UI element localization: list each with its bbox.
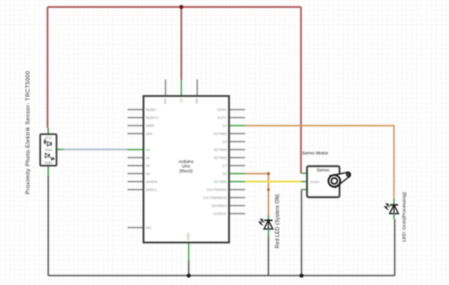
wire: sensor Vout to Arduino A0 (pale blue) xyxy=(64,148,128,150)
svg-text:Servo Motor: Servo Motor xyxy=(302,150,329,156)
svg-text:A3: A3 xyxy=(146,172,150,176)
svg-text:A2: A2 xyxy=(146,164,150,168)
sensor U1 pin GND stub xyxy=(47,166,49,177)
wire: Arduino GND down to bus xyxy=(188,261,190,276)
svg-text:N/C: N/C xyxy=(146,226,152,230)
sensor U1: Proximity Photo-Elektrik Sensor TRCT5000 body xyxy=(40,134,56,166)
Arduino U2 right pin D9 PWM (connected) xyxy=(229,181,245,183)
svg-text:RESET: RESET xyxy=(146,108,157,112)
LED2 emission arrows xyxy=(385,204,390,210)
sensor U1 phototransistor glyph xyxy=(45,153,54,160)
Arduino U2 body xyxy=(144,96,230,243)
wire: 5V net red, sensor VCC up xyxy=(47,7,49,128)
junction: GND node at servo xyxy=(300,274,304,278)
Arduino U2 right pins xyxy=(229,110,245,214)
servo M1 horn xyxy=(328,172,350,188)
svg-text:D10 PWM/SS: D10 PWM/SS xyxy=(207,188,227,192)
servo M1 body xyxy=(307,166,340,197)
svg-text:Red LED (System ON): Red LED (System ON) xyxy=(275,194,281,249)
LED1 red LED symbol xyxy=(264,220,273,229)
wire: servo ground down to bus xyxy=(301,190,303,276)
svg-text:VIN: VIN xyxy=(195,98,199,104)
wire: 5V net red, top horizontal xyxy=(48,6,302,8)
Arduino U2 left pin labels xyxy=(146,108,159,230)
svg-text:Proximity Photo-Elektrik Senso: Proximity Photo-Elektrik Sensor- TRCT500… xyxy=(26,71,32,195)
svg-text:D7: D7 xyxy=(222,164,226,168)
bendpoint on D8 wire corner xyxy=(267,172,270,175)
wire: green LED cathode down to bus xyxy=(394,219,396,275)
Arduino U2 right pin D2 (connected) xyxy=(229,125,245,127)
svg-text:D1/TX: D1/TX xyxy=(217,116,227,120)
Arduino U2 right pin D8 (connected) xyxy=(229,173,245,175)
Arduino U2 right pin labels xyxy=(203,108,227,216)
sensor U1 pin Vout stub xyxy=(57,148,64,150)
junction: 5V net node xyxy=(179,5,183,9)
LED1 cathode stub xyxy=(267,229,269,236)
Arduino U2 left pins xyxy=(128,110,144,228)
Arduino U2 top pin VIN xyxy=(196,80,198,97)
svg-text:D4: D4 xyxy=(222,140,226,144)
wire: red LED cathode down to bus xyxy=(267,236,269,275)
Arduino U2 left pin A0 (connected) xyxy=(128,149,144,151)
svg-text:D2: D2 xyxy=(222,124,226,128)
junction: GND node at Arduino xyxy=(187,274,191,278)
bendpoint on D8 wire xyxy=(267,188,270,191)
svg-text:LED: Grün(Processing): LED: Grün(Processing) xyxy=(401,192,407,242)
svg-text:AREF: AREF xyxy=(146,124,155,128)
svg-text:A1: A1 xyxy=(146,156,150,160)
svg-text:D3 PWM: D3 PWM xyxy=(214,132,227,136)
Arduino U2 top pin 5V (connected) xyxy=(180,80,182,97)
wire: D8 to red LED (orange) xyxy=(245,174,268,215)
wire: ground bus bottom horizontal xyxy=(48,275,395,277)
sensor U1 IR LED glyph xyxy=(44,140,51,146)
svg-text:D5 PWM: D5 PWM xyxy=(214,148,227,152)
Arduino U2 bottom pin GND (connected) xyxy=(188,243,190,261)
wire: D2 to green LED (orange) xyxy=(245,126,394,199)
svg-text:RESET2: RESET2 xyxy=(146,116,159,120)
Arduino U2 top pin 3V3 xyxy=(165,80,167,97)
servo M1 pin pulse stub xyxy=(301,181,307,183)
svg-text:ioref: ioref xyxy=(146,132,152,136)
svg-text:D8: D8 xyxy=(222,172,226,176)
svg-text:D12/MISO: D12/MISO xyxy=(212,204,227,208)
svg-text:D9 PWM: D9 PWM xyxy=(214,180,227,184)
svg-text:D11 PWM/MOSI: D11 PWM/MOSI xyxy=(203,196,226,200)
svg-text:D0/RX: D0/RX xyxy=(217,108,227,112)
Arduino U2 top pin labels xyxy=(164,98,200,240)
LED1 red anode stub xyxy=(267,215,269,220)
svg-text:3V3: 3V3 xyxy=(164,98,168,104)
svg-text:A5/SCL: A5/SCL xyxy=(146,188,157,192)
LED1 emission arrows xyxy=(259,219,264,225)
svg-text:A4/SDA: A4/SDA xyxy=(146,180,158,184)
svg-text:(Rev3): (Rev3) xyxy=(179,168,193,173)
svg-text:D13/SCK: D13/SCK xyxy=(213,212,227,216)
svg-text:Vout: Vout xyxy=(45,148,52,152)
svg-text:GND: GND xyxy=(44,161,52,165)
LED2 cathode stub xyxy=(393,214,395,220)
svg-text:A0: A0 xyxy=(146,148,150,152)
servo M1 pin power stub xyxy=(301,172,307,174)
wire: ground bus left vertical (sensor GND down) xyxy=(47,176,49,276)
svg-text:GND: GND xyxy=(187,232,191,240)
svg-text:VCC: VCC xyxy=(45,136,53,140)
sensor U1 pin VCC stub xyxy=(47,128,49,135)
svg-text:pulse: pulse xyxy=(310,179,320,184)
servo M1 pin ground stub xyxy=(301,189,307,191)
svg-text:D6 PWM: D6 PWM xyxy=(214,156,227,160)
wire: 5V net red, branch to Arduino 5V xyxy=(180,7,182,80)
wire: D9 PWM to servo pulse (yellow) xyxy=(245,181,302,183)
LED2 green anode stub xyxy=(393,199,395,205)
LED2 green LED symbol xyxy=(390,205,399,214)
wire: 5V net red, down to servo power xyxy=(300,7,302,173)
svg-text:Servo: Servo xyxy=(317,167,330,173)
